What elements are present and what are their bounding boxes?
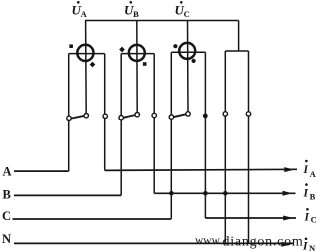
junction dot IB x right vertical 1 [223,191,228,196]
polarity mark dot CT C upper-left [173,44,177,48]
label UC [175,1,190,19]
CT U1 phase A circle [77,45,93,61]
wire phase A unit center vertical [85,21,88,116]
svg-text:C: C [311,215,317,225]
CT U3 phase C circle [179,43,195,59]
polarity mark square CT B lower-right [143,62,147,66]
label UA [72,1,88,19]
svg-text:I: I [302,240,308,252]
terminal A-left [67,116,71,120]
junction dot IB x C-left [169,191,174,196]
polarity mark square CT A upper-left [69,44,73,48]
svg-text:C: C [2,209,11,223]
arrow IN [282,242,292,247]
wire phase C unit center vertical [187,21,190,114]
svg-text:C: C [184,9,190,19]
junction dot IB x C-right [203,191,208,196]
arrow IA [284,167,294,172]
polarity mark diamond CT A lower-right [90,62,96,68]
terminal right-section 1 [223,112,227,116]
label IA [303,160,317,179]
wire bus C left segment [13,218,172,220]
wire phase B unit horizontal through CT [121,53,154,55]
svg-text:N: N [309,243,316,252]
wire right-section drop [225,21,248,52]
label IN [302,238,316,252]
wire phase A left wire down to bus A [68,54,70,172]
svg-text:B: B [310,192,316,202]
terminal B-center [135,113,139,117]
arrow IC [283,216,293,221]
wire line IB [154,192,295,194]
terminal C-right filled [203,114,208,119]
CT U2 phase B circle [129,45,145,61]
label IC [304,208,317,225]
svg-text:I: I [303,164,309,176]
wire phase B unit center vertical [136,21,138,115]
svg-text:www.: www. [195,235,222,247]
wire top common line [85,20,239,22]
svg-text:N: N [2,232,11,246]
terminal A-center [84,114,88,118]
switch SB blade [119,114,141,119]
svg-text:A: A [81,9,88,19]
wire phase A unit horizontal through CT [69,53,105,55]
terminal C-left [169,115,173,119]
wire right vertical 1 [224,51,226,244]
wire phase B left wire down to bus B [120,54,122,196]
svg-text:A: A [3,164,12,178]
terminal C-center [186,112,190,116]
wire bus A left segment [14,170,69,172]
wire line IC [205,217,296,219]
wire line IA [105,169,297,170]
svg-text:A: A [310,169,317,179]
arrow IB [283,191,293,196]
svg-text:I: I [303,188,309,200]
wire phase C left wire down to bus C [170,52,172,219]
svg-text:B: B [3,187,11,201]
wire bus B left segment [14,194,121,196]
polarity mark diamond CT B upper-left [119,47,125,53]
terminal B-left [119,116,123,120]
polarity mark dot CT C lower-right [192,59,196,63]
label IB [303,183,316,201]
terminal right-section 2 [246,112,250,116]
svg-text:diangon.com: diangon.com [223,235,304,250]
wire phase C right wire down [204,52,206,218]
svg-text:B: B [133,9,139,19]
wire phase B right wire down [153,54,155,194]
switch SC blade [169,113,191,118]
wire right vertical 2 [248,51,250,244]
label UB [124,1,139,19]
switch SA blade [67,115,90,120]
terminal B-right [152,113,156,117]
terminal A-right [103,114,107,118]
wire bus N [14,242,294,244]
wire phase A right wire down [104,54,106,171]
wire phase C unit horizontal through CT [171,51,205,53]
svg-text:I: I [304,212,310,224]
